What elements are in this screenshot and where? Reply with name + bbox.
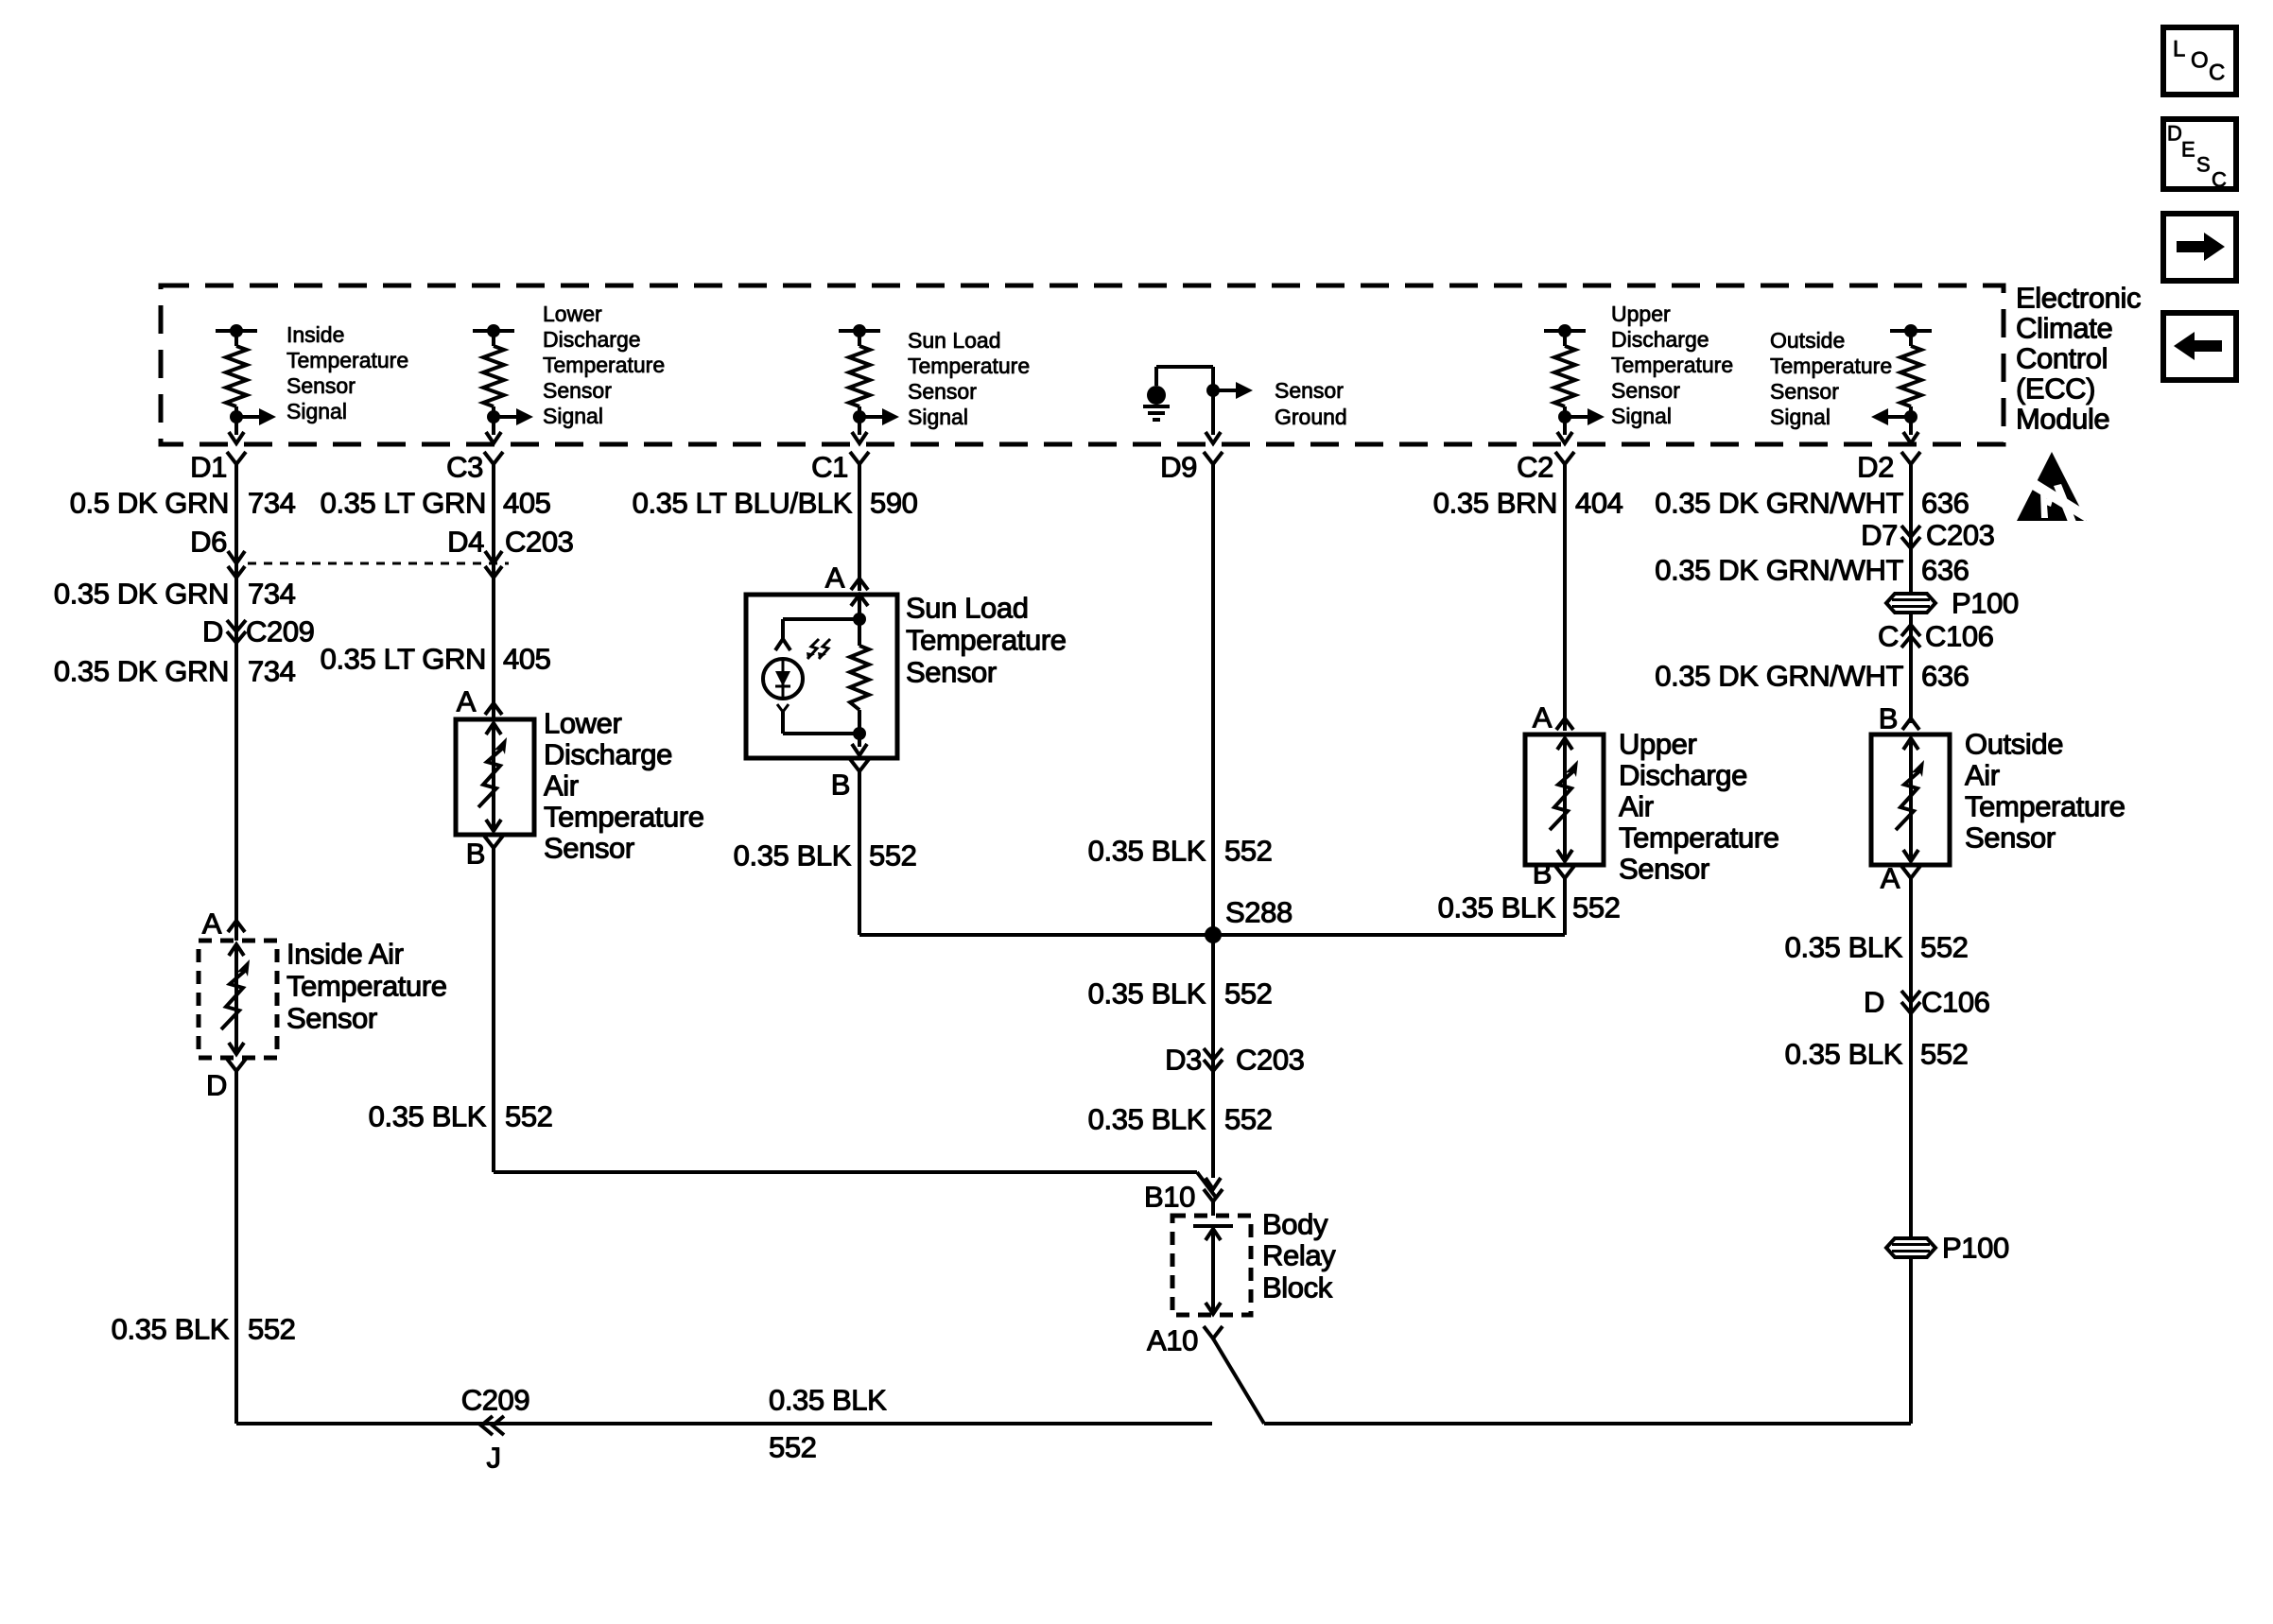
- svg-text:Sensor: Sensor: [906, 656, 997, 689]
- svg-text:734: 734: [248, 578, 296, 611]
- svg-text:0.35 DK GRN: 0.35 DK GRN: [54, 578, 229, 611]
- svg-text:D7: D7: [1861, 519, 1898, 552]
- svg-text:Signal: Signal: [543, 404, 603, 428]
- svg-text:Temperature: Temperature: [286, 348, 408, 372]
- svg-text:Signal: Signal: [1611, 404, 1672, 428]
- svg-text:C3: C3: [446, 451, 483, 484]
- svg-text:A10: A10: [1147, 1324, 1198, 1357]
- svg-text:0.35 DK GRN: 0.35 DK GRN: [54, 655, 229, 688]
- svg-text:405: 405: [503, 643, 551, 676]
- svg-text:590: 590: [870, 487, 918, 520]
- svg-text:B10: B10: [1144, 1181, 1195, 1214]
- svg-text:Sensor: Sensor: [1619, 853, 1709, 886]
- svg-text:Temperature: Temperature: [1611, 353, 1733, 377]
- svg-text:552: 552: [769, 1431, 817, 1464]
- svg-text:0.35 BLK: 0.35 BLK: [734, 839, 852, 872]
- svg-text:D: D: [202, 615, 223, 648]
- svg-text:552: 552: [1920, 931, 1969, 964]
- svg-text:D1: D1: [190, 451, 227, 484]
- svg-text:Air: Air: [544, 769, 579, 803]
- svg-text:C209: C209: [461, 1384, 530, 1417]
- svg-text:Lower: Lower: [543, 302, 602, 326]
- svg-text:Sensor: Sensor: [286, 373, 356, 398]
- svg-text:0.35 BLK: 0.35 BLK: [1785, 931, 1903, 964]
- svg-text:A: A: [202, 907, 222, 941]
- svg-text:0.35 BRN: 0.35 BRN: [1433, 487, 1557, 520]
- svg-text:552: 552: [1920, 1038, 1969, 1071]
- svg-text:Temperature: Temperature: [544, 801, 704, 834]
- svg-text:0.35 BLK: 0.35 BLK: [1088, 977, 1206, 1011]
- svg-text:O: O: [2191, 48, 2209, 74]
- svg-text:Ground: Ground: [1275, 405, 1347, 429]
- svg-text:0.35 BLK: 0.35 BLK: [1785, 1038, 1903, 1071]
- svg-text:0.35 BLK: 0.35 BLK: [1438, 891, 1556, 924]
- svg-text:C203: C203: [1236, 1044, 1305, 1077]
- svg-text:C1: C1: [811, 451, 848, 484]
- svg-text:Electronic: Electronic: [2016, 282, 2141, 315]
- svg-text:0.35 BLK: 0.35 BLK: [369, 1100, 487, 1133]
- svg-text:Discharge: Discharge: [1611, 327, 1709, 352]
- svg-text:636: 636: [1921, 487, 1969, 520]
- svg-text:0.35 DK GRN/WHT: 0.35 DK GRN/WHT: [1655, 487, 1903, 520]
- svg-text:552: 552: [248, 1313, 296, 1346]
- svg-text:Signal: Signal: [286, 399, 347, 423]
- svg-text:552: 552: [1224, 1103, 1273, 1136]
- svg-text:L: L: [2173, 37, 2185, 62]
- svg-text:Lower: Lower: [544, 707, 622, 740]
- svg-text:C2: C2: [1517, 451, 1553, 484]
- svg-text:552: 552: [1224, 835, 1273, 868]
- svg-text:Sensor: Sensor: [543, 378, 612, 403]
- svg-text:636: 636: [1921, 554, 1969, 587]
- svg-text:552: 552: [1572, 891, 1621, 924]
- svg-text:Outside: Outside: [1770, 328, 1845, 353]
- svg-text:P100: P100: [1952, 587, 2019, 620]
- svg-text:A: A: [1533, 701, 1553, 734]
- svg-text:C209: C209: [246, 615, 315, 648]
- svg-text:A: A: [825, 561, 845, 595]
- svg-text:C106: C106: [1925, 620, 1994, 653]
- svg-text:404: 404: [1575, 487, 1623, 520]
- svg-text:Sensor: Sensor: [908, 379, 977, 404]
- svg-text:Discharge: Discharge: [1619, 759, 1747, 792]
- svg-text:734: 734: [248, 655, 296, 688]
- svg-text:Upper: Upper: [1611, 302, 1671, 326]
- svg-text:D4: D4: [447, 526, 484, 559]
- svg-text:Relay: Relay: [1262, 1239, 1336, 1272]
- svg-text:Outside: Outside: [1965, 728, 2063, 761]
- svg-text:D6: D6: [190, 526, 227, 559]
- svg-text:Module: Module: [2016, 403, 2109, 436]
- svg-text:Sun Load: Sun Load: [906, 592, 1029, 625]
- svg-text:C106: C106: [1921, 986, 1990, 1019]
- svg-text:0.35 BLK: 0.35 BLK: [112, 1313, 230, 1346]
- svg-text:Upper: Upper: [1619, 728, 1697, 761]
- svg-text:D: D: [206, 1069, 227, 1102]
- svg-text:Discharge: Discharge: [544, 738, 672, 771]
- svg-text:0.35 BLK: 0.35 BLK: [769, 1384, 887, 1417]
- svg-text:Sensor: Sensor: [1611, 378, 1680, 403]
- svg-text:636: 636: [1921, 660, 1969, 693]
- svg-text:C203: C203: [1926, 519, 1995, 552]
- svg-text:E: E: [2181, 138, 2195, 162]
- svg-text:0.35 BLK: 0.35 BLK: [1088, 1103, 1206, 1136]
- svg-text:Temperature: Temperature: [286, 970, 447, 1003]
- svg-text:S288: S288: [1225, 896, 1293, 929]
- svg-text:D: D: [2167, 122, 2182, 146]
- svg-text:Inside: Inside: [286, 322, 344, 347]
- svg-text:S: S: [2196, 153, 2211, 177]
- svg-text:Temperature: Temperature: [906, 624, 1067, 657]
- svg-text:Control: Control: [2016, 342, 2108, 375]
- svg-text:Air: Air: [1965, 759, 2000, 792]
- svg-text:C: C: [2212, 168, 2227, 192]
- svg-text:B: B: [1533, 857, 1552, 890]
- svg-text:0.35 LT GRN: 0.35 LT GRN: [321, 487, 486, 520]
- svg-text:Sensor: Sensor: [1275, 378, 1344, 403]
- svg-text:B: B: [1879, 702, 1898, 735]
- svg-text:Climate: Climate: [2016, 312, 2112, 345]
- svg-text:Sensor: Sensor: [544, 832, 634, 865]
- svg-text:Sensor: Sensor: [1770, 379, 1839, 404]
- svg-text:Temperature: Temperature: [908, 354, 1030, 378]
- svg-text:J: J: [486, 1442, 500, 1475]
- svg-text:(ECC): (ECC): [2016, 372, 2095, 406]
- svg-text:0.35 LT GRN: 0.35 LT GRN: [321, 643, 486, 676]
- svg-text:D3: D3: [1165, 1044, 1202, 1077]
- svg-text:Air: Air: [1619, 790, 1654, 823]
- svg-text:Temperature: Temperature: [1619, 821, 1779, 855]
- svg-text:Sun Load: Sun Load: [908, 328, 1000, 353]
- svg-text:Inside Air: Inside Air: [286, 938, 404, 971]
- svg-text:552: 552: [505, 1100, 553, 1133]
- svg-text:0.35 BLK: 0.35 BLK: [1088, 835, 1206, 868]
- svg-text:A: A: [1881, 862, 1900, 895]
- svg-text:C: C: [1878, 620, 1899, 653]
- svg-text:A: A: [457, 685, 477, 718]
- svg-text:C203: C203: [505, 526, 574, 559]
- svg-text:Sensor: Sensor: [286, 1002, 377, 1035]
- svg-text:Signal: Signal: [1770, 405, 1831, 429]
- svg-text:0.5 DK GRN: 0.5 DK GRN: [70, 487, 229, 520]
- svg-text:B: B: [831, 769, 850, 802]
- svg-text:Temperature: Temperature: [1965, 790, 2126, 823]
- svg-text:Block: Block: [1262, 1271, 1333, 1304]
- svg-text:C: C: [2209, 60, 2225, 86]
- svg-text:B: B: [466, 838, 485, 871]
- svg-text:552: 552: [869, 839, 917, 872]
- svg-text:Temperature: Temperature: [1770, 354, 1892, 378]
- svg-text:Temperature: Temperature: [543, 353, 665, 377]
- svg-text:D: D: [1864, 986, 1884, 1019]
- svg-text:D2: D2: [1857, 451, 1894, 484]
- svg-text:Signal: Signal: [908, 405, 968, 429]
- svg-text:P100: P100: [1942, 1232, 2009, 1265]
- svg-text:Sensor: Sensor: [1965, 821, 2056, 855]
- svg-text:734: 734: [248, 487, 296, 520]
- svg-text:D9: D9: [1160, 451, 1197, 484]
- svg-text:Body: Body: [1262, 1208, 1328, 1241]
- svg-text:552: 552: [1224, 977, 1273, 1011]
- svg-text:405: 405: [503, 487, 551, 520]
- svg-text:Discharge: Discharge: [543, 327, 641, 352]
- svg-text:0.35 LT BLU/BLK: 0.35 LT BLU/BLK: [633, 487, 853, 520]
- svg-text:0.35 DK GRN/WHT: 0.35 DK GRN/WHT: [1655, 660, 1903, 693]
- svg-text:0.35 DK GRN/WHT: 0.35 DK GRN/WHT: [1655, 554, 1903, 587]
